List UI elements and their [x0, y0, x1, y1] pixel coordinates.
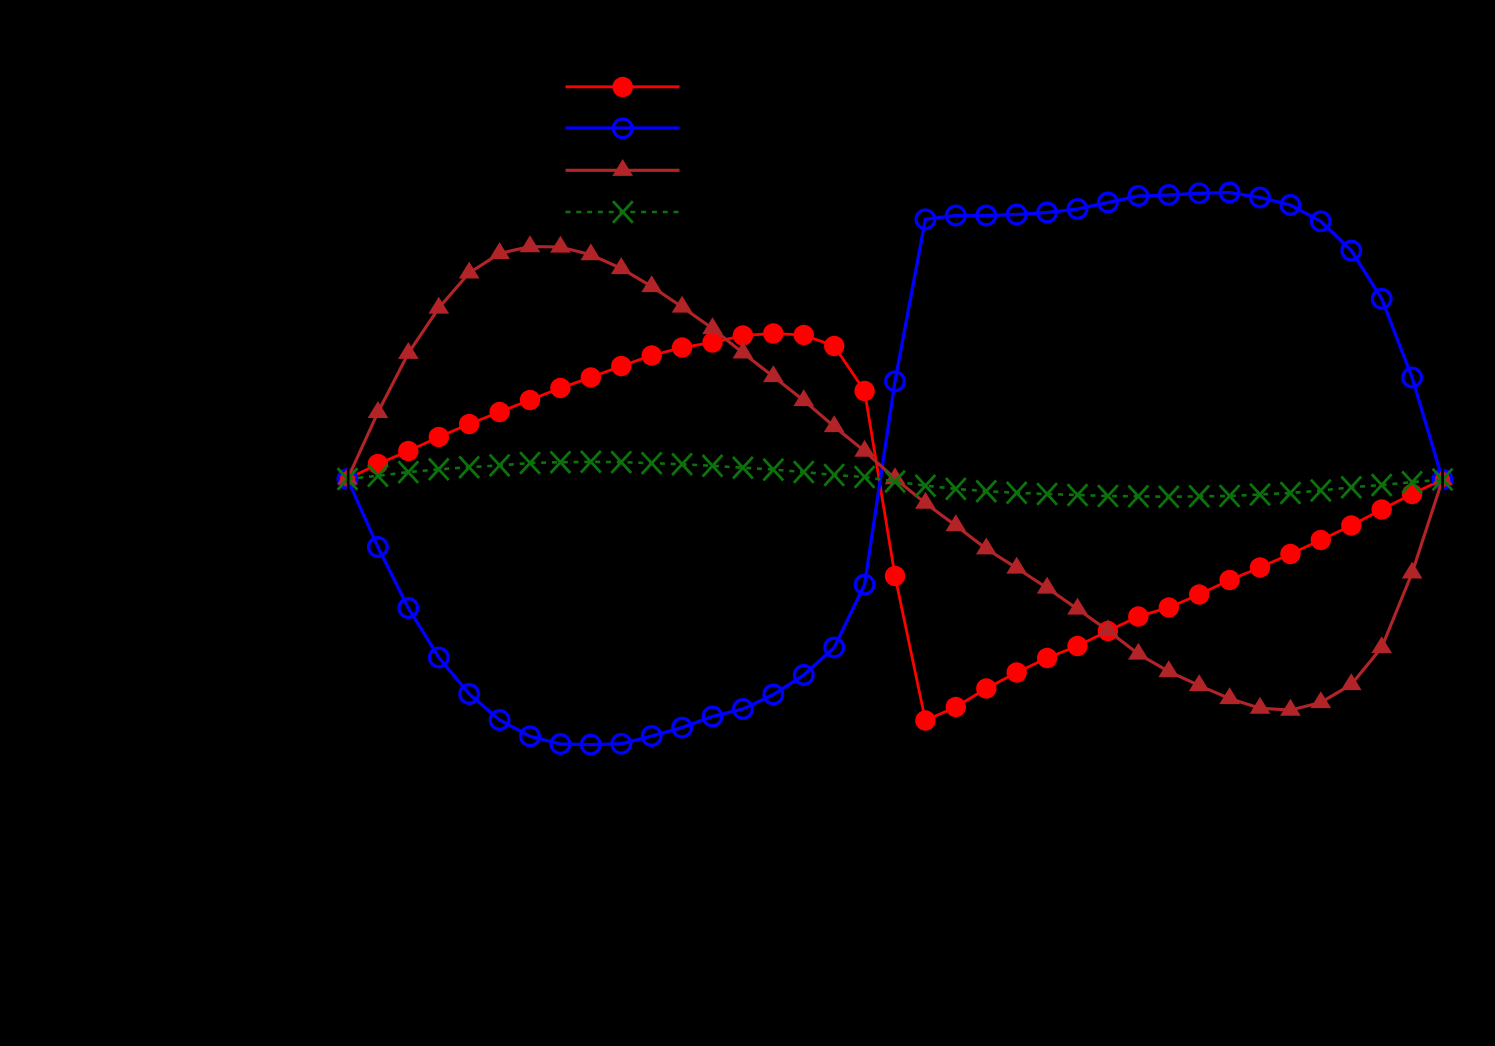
legend entry 2: blue line with open circle: [566, 119, 680, 138]
firebrick series line (eigenvector 3): [348, 247, 1443, 710]
right axis black overlay across node marker: [1441, 450, 1444, 510]
legend entry 4: green dashed line with X: [566, 201, 680, 223]
green dashed series line (eigenvector 4): [348, 462, 1443, 497]
left axis (y-axis) black overlay across node marker: [347, 450, 350, 510]
firebrick series markers: filled triangles: [337, 235, 1453, 715]
blue series line (eigenvector 2): [348, 193, 1443, 745]
legend entry 1: red line with filled circle: [566, 77, 680, 97]
legend entry 3: firebrick line with triangle: [566, 159, 680, 176]
red series line (eigenvector 1): [348, 334, 1443, 721]
blue series markers: open circles: [338, 183, 1452, 754]
red series markers: filled circles: [337, 323, 1452, 730]
green series markers: X crosses: [338, 451, 1453, 508]
